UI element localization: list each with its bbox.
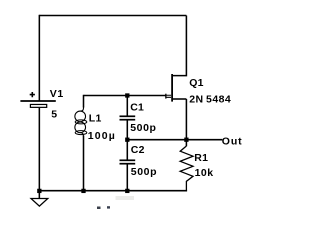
caption remnant faint smudge — [116, 196, 135, 200]
wire gate rail — [84, 95, 166, 97]
junction ground node — [37, 189, 41, 193]
resistor R1 — [180, 146, 193, 191]
junction source node — [184, 138, 188, 142]
caption remnant stem 1 — [97, 207, 101, 210]
ground — [31, 191, 48, 206]
svg-text:L1: L1 — [89, 113, 102, 125]
svg-text:C2: C2 — [131, 144, 145, 156]
junction C2 bottom — [125, 189, 129, 193]
wire top rail — [39, 15, 186, 17]
junction L1 bottom — [81, 189, 85, 193]
junction gate/C1 node — [125, 93, 129, 97]
svg-text:Out: Out — [222, 136, 243, 148]
svg-text:2N 5484: 2N 5484 — [189, 93, 231, 105]
svg-text:500p: 500p — [130, 122, 156, 134]
transistor Q1 — [166, 74, 187, 102]
inductor L1 — [75, 95, 87, 191]
svg-text:V1: V1 — [50, 88, 64, 100]
battery V1 — [20, 92, 55, 107]
svg-text:C1: C1 — [130, 101, 144, 113]
wire left rail upper — [38, 15, 40, 101]
junction mid node — [125, 138, 129, 142]
wire source down — [185, 99, 187, 146]
wire bottom rail — [39, 190, 187, 192]
svg-text:5: 5 — [51, 109, 57, 121]
capacitor C2 — [120, 140, 136, 191]
caption remnant stem 2 — [107, 206, 110, 208]
svg-text:Q1: Q1 — [189, 77, 203, 89]
wire left rail lower — [38, 108, 40, 191]
wire right rail drain — [172, 16, 186, 76]
capacitor C1 — [120, 96, 136, 140]
svg-text:500p: 500p — [131, 166, 157, 178]
svg-text:100µ: 100µ — [88, 130, 116, 142]
wire mid (C junction to source) — [127, 139, 186, 141]
wire out — [186, 139, 222, 141]
svg-text:R1: R1 — [194, 152, 208, 164]
svg-text:10k: 10k — [195, 167, 214, 179]
